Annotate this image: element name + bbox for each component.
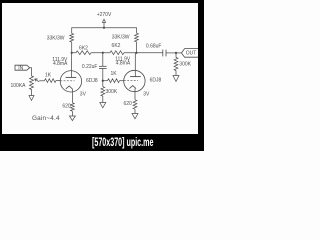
svg-text:6DJ8: 6DJ8 — [150, 78, 162, 84]
ground grid leak — [100, 103, 106, 108]
tube V2 6DJ8 — [115, 53, 161, 100]
wire top rail — [72, 28, 137, 34]
svg-text:3V: 3V — [143, 91, 150, 97]
node plate left — [71, 52, 73, 54]
tube V1 6DJ8 — [52, 53, 98, 103]
watermark bar — [0, 0, 204, 3]
connector OUT — [181, 49, 198, 58]
svg-text:33K/3W: 33K/3W — [112, 34, 130, 40]
resistor 620 cathode right — [123, 100, 136, 114]
capacitor 0.22uF — [82, 53, 107, 81]
ground cathode right — [132, 114, 138, 119]
resistor 33K/3W left — [47, 33, 74, 52]
resistor 6K2 left — [76, 45, 91, 54]
capacitor 0.68uF — [146, 44, 181, 57]
svg-text:33K/3W: 33K/3W — [47, 36, 65, 42]
svg-text:0.68uF: 0.68uF — [146, 44, 162, 50]
svg-text:6DJ8: 6DJ8 — [86, 78, 98, 84]
wire plate bus — [72, 52, 163, 54]
svg-text:OUT: OUT — [186, 51, 197, 57]
node out — [175, 52, 177, 54]
node plate right — [135, 52, 137, 54]
svg-text:620: 620 — [62, 103, 71, 109]
svg-text:IN: IN — [18, 65, 23, 71]
svg-text:1K: 1K — [110, 71, 117, 77]
resistor 620 cathode left — [62, 103, 74, 116]
power +270V — [97, 12, 112, 29]
potentiometer 100KA — [10, 76, 39, 90]
resistor 300K grid leak — [101, 81, 118, 103]
svg-text:4.8mA: 4.8mA — [53, 61, 68, 67]
svg-text:100KA: 100KA — [10, 83, 26, 89]
resistor 6K2 right — [110, 43, 124, 54]
svg-text:6K2: 6K2 — [112, 43, 121, 49]
ground output — [173, 76, 179, 82]
ground pot — [29, 90, 34, 101]
svg-text:Gain~4.4: Gain~4.4 — [32, 115, 60, 122]
node grid2 — [102, 80, 104, 82]
svg-text:300K: 300K — [106, 89, 118, 95]
svg-text:6K2: 6K2 — [79, 45, 88, 51]
svg-text:1K: 1K — [45, 72, 52, 78]
svg-text:620: 620 — [123, 101, 132, 107]
svg-text:0.22uF: 0.22uF — [82, 64, 98, 70]
resistor 1K right — [103, 71, 124, 82]
resistor 1K left — [45, 72, 61, 82]
resistor 33K/3W right — [112, 33, 139, 53]
svg-text:4.8mA: 4.8mA — [116, 60, 131, 66]
connector IN — [15, 65, 30, 71]
wire IN to pot — [30, 68, 32, 76]
svg-text:300K: 300K — [179, 62, 191, 68]
svg-text:3V: 3V — [80, 92, 87, 98]
node mix — [102, 52, 104, 54]
wire wiper — [39, 80, 44, 82]
svg-text:+270V: +270V — [97, 12, 112, 18]
ground cathode left — [69, 116, 75, 121]
resistor 300K output — [174, 53, 192, 76]
